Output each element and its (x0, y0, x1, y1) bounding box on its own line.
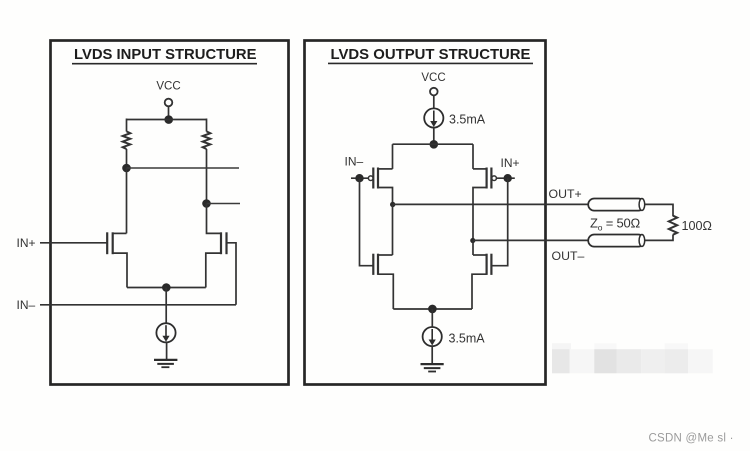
svg-text:IN+: IN+ (501, 156, 520, 170)
wire rail to Q4 (472, 144, 474, 169)
node tail junction (output) (428, 305, 437, 314)
ground (input side) (154, 360, 177, 367)
transistor Q3 (PMOS top-left) (368, 168, 392, 205)
wire bridge top rail (393, 143, 474, 145)
svg-text:3.5mA: 3.5mA (449, 332, 486, 346)
wire IN- node down to Q5 gate (360, 178, 374, 266)
transistor Q5 (NMOS bottom-left) (373, 254, 393, 309)
transistor Q1 (input pair, left) (107, 232, 127, 287)
wire current source to bridge rail (433, 128, 435, 145)
wire OUT- node down to Q6 (472, 240, 474, 255)
svg-text:LVDS OUTPUT STRUCTURE: LVDS OUTPUT STRUCTURE (331, 46, 531, 63)
wire IN- lead (40, 304, 236, 306)
wire VCC terminal to current source (433, 95, 435, 108)
VCC terminal (input) (165, 99, 173, 107)
svg-text:OUT+: OUT+ (549, 187, 582, 201)
svg-text:100Ω: 100Ω (682, 219, 712, 233)
node right load / stub junction (202, 199, 211, 208)
node left load / stub junction (122, 164, 131, 173)
wire stub from right node (207, 203, 241, 205)
svg-text:IN–: IN– (17, 298, 36, 312)
watermark mosaic (552, 343, 713, 373)
transistor Q6 (NMOS bottom-right, mirrored) (472, 254, 491, 309)
wire OUT+ node down to Q5 (392, 204, 394, 255)
transmission line T2 (Zo=50) (588, 235, 645, 247)
VCC terminal (output) (430, 88, 438, 96)
resistor R2 (right load) (203, 119, 211, 204)
svg-text:LVDS INPUT STRUCTURE: LVDS INPUT STRUCTURE (74, 46, 257, 63)
wire common source tail (127, 287, 206, 289)
node IN+ (504, 174, 512, 182)
wire current source to ground (output) (431, 346, 433, 364)
current source I3 (3.5mA bottom) (423, 327, 442, 346)
ground (output side) (421, 364, 444, 371)
svg-text:VCC: VCC (421, 72, 445, 84)
wire left node to Q1 drain (126, 168, 128, 233)
title LVDS OUTPUT STRUCTURE (328, 46, 533, 63)
left panel box (51, 41, 289, 385)
wire tail to current source (431, 309, 433, 328)
wire top rail (127, 119, 207, 121)
wire rail to Q3 (392, 144, 394, 169)
wire VCC terminal to rail (168, 106, 170, 119)
wire bridge bottom tail (393, 308, 472, 310)
wire tail to current source (165, 288, 167, 324)
wire IN+ node down to Q6 gate (491, 178, 507, 266)
svg-text:3.5mA: 3.5mA (449, 113, 486, 127)
svg-text:IN–: IN– (345, 155, 364, 169)
svg-text:OUT–: OUT– (552, 249, 585, 263)
node OUT- junction (470, 238, 475, 243)
wire IN+ node lead (497, 177, 515, 179)
wire R3 to T2 (645, 235, 673, 241)
resistor R1 (left load) (123, 119, 131, 169)
node VCC rail junction (164, 115, 173, 124)
resistor R3 (100 ohm termination) (669, 216, 677, 235)
wire IN- node lead (351, 177, 368, 179)
right panel box (305, 41, 546, 385)
node tail junction (162, 283, 171, 292)
node OUT+ junction (390, 202, 395, 207)
wire current source to ground (166, 343, 168, 361)
node bridge top center (430, 140, 439, 149)
transmission line T1 (Zo=50) (588, 199, 645, 211)
svg-text:IN+: IN+ (17, 236, 36, 250)
current source I1 (156, 323, 175, 342)
svg-text:CSDN @Me sl ·: CSDN @Me sl · (649, 433, 734, 445)
svg-text:VCC: VCC (156, 81, 180, 93)
wire T1 to resistor R3 (645, 204, 673, 216)
wire OUT- line (473, 239, 589, 241)
wire stub from left node (127, 167, 240, 169)
title LVDS INPUT STRUCTURE (72, 46, 257, 64)
svg-text:Zo = 50Ω: Zo = 50Ω (590, 216, 641, 233)
wire IN+ gate lead (40, 242, 107, 244)
node IN- (355, 174, 363, 182)
current source I2 (3.5mA top) (424, 108, 443, 127)
transistor Q2 (input pair, right, mirrored) (206, 204, 227, 288)
transistor Q4 (PMOS top-right, mirrored) (473, 168, 496, 241)
wire Q2 gate to IN- line (227, 243, 237, 305)
wire OUT+ line (393, 203, 589, 205)
